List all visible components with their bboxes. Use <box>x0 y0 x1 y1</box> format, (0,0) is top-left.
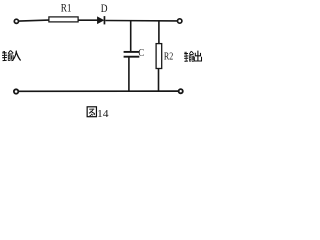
wire: R1 to diode D <box>79 19 98 21</box>
wire: capacitor upper lead <box>130 21 132 52</box>
wire: R2 upper lead <box>158 21 160 44</box>
output terminal bottom-right <box>179 89 183 93</box>
char 输 <box>2 50 13 60</box>
wire: bottom rail <box>19 90 179 92</box>
char 入 <box>12 51 20 61</box>
caption 图14 <box>87 107 109 120</box>
svg-text:14: 14 <box>97 108 109 120</box>
wire: R2 lower lead <box>158 69 160 91</box>
input terminal bottom-left <box>14 89 18 93</box>
resistor R1 <box>49 17 78 22</box>
char 输 <box>184 51 194 61</box>
svg-text:C: C <box>138 48 144 59</box>
svg-text:R2: R2 <box>164 52 173 63</box>
diode D <box>97 17 103 24</box>
svg-text:R1: R1 <box>61 0 72 14</box>
char 出 <box>194 51 201 61</box>
char 图 <box>87 107 96 117</box>
wire: left terminal to R1 <box>19 20 49 21</box>
input terminal top-left <box>14 19 18 23</box>
label 输入 (input) <box>2 50 21 60</box>
wire: diode to output terminal <box>105 20 177 22</box>
resistor R2 <box>156 44 162 69</box>
capacitor C <box>124 51 140 53</box>
label 输出 (output) <box>184 51 202 62</box>
svg-text:D: D <box>101 1 108 15</box>
wire: capacitor lower lead <box>128 57 130 91</box>
output terminal top-right <box>178 19 182 23</box>
